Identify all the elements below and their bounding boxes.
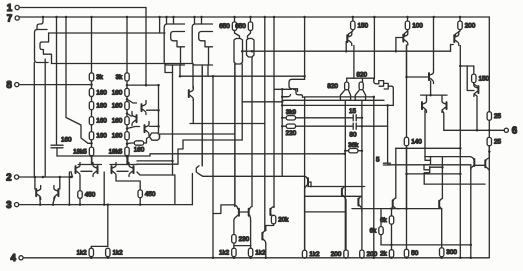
node y66 left (459, 65, 462, 68)
node Q5 tap (251, 50, 254, 53)
wire Q3 drop b (201, 65, 203, 166)
wire x395 drop (395, 148, 397, 198)
wire ladder2 seg3 (126, 110, 128, 117)
wire Q22 top (273, 207, 275, 208)
transistor Q23 (263, 231, 266, 234)
resistor 20k (271, 215, 275, 224)
wire Q28 drop (387, 105, 389, 163)
wire R450B bot (139, 198, 141, 205)
svg-text:3: 3 (6, 200, 12, 211)
wire ladder2 bot (126, 140, 128, 147)
junction V- bus x107.8 (107, 257, 110, 260)
wire y105 bus (282, 104, 393, 106)
wire Q8 coll drop (459, 46, 461, 258)
node y244 x392 (390, 244, 393, 247)
transistor Q24 (289, 79, 305, 89)
resistor 18k5 A (89, 147, 93, 156)
svg-text:3k9: 3k9 (286, 109, 297, 116)
wire V+ to C1 (56, 17, 58, 145)
svg-text:450: 450 (145, 191, 156, 198)
resistor 160 ladder2-4 (125, 132, 129, 140)
transistor Q36 (304, 176, 307, 178)
junction V+ bus x250.5 (249, 16, 252, 19)
wire y196 mid (305, 195, 361, 197)
svg-text:1: 1 (7, 3, 13, 14)
junction V+ bus x201.5 (200, 16, 203, 19)
wire Q21 em (250, 221, 252, 246)
resistor 200 top (458, 21, 462, 30)
node Q7 base (395, 50, 398, 53)
wire Q4a drop (234, 64, 236, 207)
svg-text:820: 820 (327, 83, 338, 90)
svg-text:100: 100 (412, 22, 423, 29)
node ladder1 18k5 (90, 142, 93, 145)
node cap80 tap (361, 125, 364, 128)
wire Q7 base (396, 37, 402, 39)
terminal pin 2 (15, 175, 19, 179)
wire rail2 jog path (137, 140, 242, 164)
node ladder2 tap top (126, 84, 129, 87)
capacitor C5 (383, 163, 390, 165)
wire V+ drop x374 (373, 17, 375, 79)
wire y186 mid (308, 186, 365, 188)
wire Q18 out (39, 197, 41, 205)
wire Q34 base (467, 66, 474, 91)
wire y184 link (424, 183, 485, 185)
wire Q9 base (127, 99, 137, 103)
wire ladder2 top (126, 17, 128, 73)
transistor Q26 (355, 90, 365, 108)
wire y101 link (242, 101, 282, 103)
wire pin3 bus (19, 204, 193, 206)
wire x406 seg (406, 148, 408, 208)
wire pin7 V+ bus (19, 16, 489, 18)
wire inv drop (174, 175, 176, 204)
wire V+ stub (159, 17, 161, 33)
wire 36k right lead (358, 150, 362, 152)
wire Q1 inner drop (44, 59, 46, 177)
junction V+ bus x274 (273, 16, 276, 19)
wire Q7 coll drop (406, 45, 408, 77)
wire 3k9 left (282, 117, 286, 119)
wire x213 column (212, 76, 214, 258)
transistor Q42 (189, 87, 194, 101)
node ladder2 j3 (126, 127, 129, 130)
wire R140 bot (406, 146, 408, 209)
transistor Q1 (35, 30, 49, 63)
node pin1-ladder2 junction (145, 84, 148, 87)
wire tail x107 (107, 205, 109, 247)
resistor 450 B (138, 190, 142, 198)
terminal pin 8 (15, 83, 19, 87)
resistor 1k2 D (248, 248, 252, 256)
junction V+ bus x91.5 (90, 16, 93, 19)
node bus3 104 (103, 203, 106, 206)
svg-text:200: 200 (367, 251, 378, 258)
wire Q29 coll (430, 81, 432, 95)
svg-text:80: 80 (349, 132, 357, 139)
transistor Q18 (36, 186, 41, 200)
node ladder2 18k5 (126, 142, 129, 145)
node Q4 tap (241, 50, 244, 53)
wire cluster1 rail (78, 164, 101, 166)
node Q28 tap (386, 104, 389, 107)
wire Q1 collector to Q2 (49, 32, 165, 34)
node y148 end (459, 147, 462, 150)
wire Q24 em lead (303, 96, 305, 98)
resistor 1k2 C (232, 248, 236, 256)
wire ladder2 seg1 (126, 81, 128, 88)
resistor 160 ladder1-4 (89, 132, 93, 140)
wire R450A bot (79, 198, 81, 204)
svg-text:160: 160 (134, 147, 145, 154)
svg-text:18k5: 18k5 (73, 148, 87, 155)
node cap15 end (361, 117, 364, 120)
junction V+ bus x66 (65, 16, 68, 19)
wire Q1 base bus (52, 63, 194, 65)
node bus3 53 (52, 203, 55, 206)
svg-text:150: 150 (479, 75, 490, 82)
svg-text:1k2: 1k2 (255, 249, 266, 256)
wire Q1 emitter lead (37, 17, 43, 30)
wire R6kB top (380, 209, 382, 227)
svg-text:6k: 6k (370, 228, 378, 235)
wire Q12 out (160, 134, 235, 138)
svg-text:140: 140 (411, 139, 422, 146)
wire Q3 drop a (192, 65, 194, 88)
node R140 y148 (405, 147, 408, 150)
node tap rail end (157, 84, 160, 87)
node out drive (476, 129, 479, 132)
node pin8 ladder1 (90, 83, 93, 86)
svg-text:160: 160 (96, 103, 107, 110)
resistor 3k9 (286, 116, 295, 120)
junction V+ bus x352.8 (352, 16, 355, 19)
transistor Q2 (167, 17, 174, 24)
node cluster base (441, 166, 444, 169)
wire ladder1 seg2 (91, 97, 93, 102)
wire y89 stub (275, 88, 287, 90)
wire x346 bot (345, 199, 347, 250)
wire Q4 lead a (234, 64, 236, 207)
node x282 y126 (281, 125, 284, 128)
transistor Q27 (374, 81, 384, 87)
wire R300 top (441, 210, 443, 247)
node y174 right (459, 173, 462, 176)
wire y123 link (190, 123, 265, 125)
wire R100 top (407, 17, 409, 21)
node bus3 69 (68, 203, 71, 206)
wire ladder1 top (91, 17, 93, 73)
wire 18k5B bot (126, 155, 128, 164)
svg-text:160: 160 (112, 89, 123, 96)
svg-text:160: 160 (96, 118, 107, 125)
svg-text:160: 160 (96, 89, 107, 96)
wire x282 column (281, 89, 283, 176)
wire Q3 drop c (207, 65, 209, 76)
transistor Q31 (442, 99, 447, 113)
wire cluster2 base link (117, 170, 128, 172)
wire ladder1 seg1 (91, 81, 93, 88)
wire R50 top (406, 209, 408, 250)
capacitor C1 (51, 145, 63, 148)
wire Q11 out (150, 125, 159, 127)
wire 18k5A bot (91, 156, 93, 165)
junction V- bus x373.8 (373, 257, 376, 260)
transistor Q41 (470, 157, 473, 160)
wire pin8 bus (19, 84, 92, 86)
wire pin6 output (444, 129, 504, 131)
transistor Q7 (403, 31, 408, 45)
resistor 160 horizontal (134, 141, 143, 145)
transistor Q8 (454, 32, 459, 46)
wire OT bridge (240, 211, 249, 213)
svg-text:5: 5 (376, 157, 380, 164)
wire R6kA top (391, 209, 393, 216)
transistor Q4 (234, 39, 243, 65)
wire Q2 bottom fold (165, 65, 173, 73)
wire Q29 em (433, 17, 435, 70)
svg-text:650: 650 (219, 23, 230, 30)
node y95 tap (429, 94, 432, 97)
resistor 18k5 B (125, 147, 129, 156)
resistor 1k2 E (302, 250, 306, 258)
transistor Q20 (233, 205, 238, 209)
junction V- bus x361.9 (361, 257, 364, 260)
svg-text:200: 200 (331, 251, 342, 258)
junction V+ bus x56.5 (55, 16, 58, 19)
svg-text:50: 50 (411, 250, 419, 257)
wire prot a (34, 177, 36, 189)
svg-text:1k2: 1k2 (219, 249, 230, 256)
transistor Q35 (486, 158, 489, 161)
transistor Q37 (343, 187, 346, 190)
wire Q34 coll (474, 94, 477, 130)
wire x374 lower (373, 97, 375, 258)
node x282 y96 (281, 95, 284, 98)
node Q6 base (345, 50, 348, 53)
node R25B foot (488, 150, 491, 153)
svg-text:3k: 3k (116, 74, 124, 81)
wire Q30 coll (424, 110, 426, 157)
svg-text:25: 25 (494, 113, 502, 120)
junction V- bus x346 (345, 257, 348, 260)
wire prot b (59, 177, 61, 189)
node x282 y89 (281, 88, 284, 91)
wire Q35 coll (488, 146, 490, 258)
wire R200 to Q8 (456, 30, 461, 36)
wire ladder1 seg4 (91, 125, 93, 132)
wire y96 stub (282, 96, 286, 98)
svg-text:160: 160 (112, 133, 123, 140)
junction V+ bus x173.5 (172, 16, 175, 19)
resistor 820 A (345, 82, 349, 90)
wire Q19 out (53, 197, 55, 205)
wire 1k2d top (250, 246, 252, 249)
svg-text:1k2: 1k2 (76, 249, 87, 256)
wire Q22 em (273, 215, 275, 218)
transistor Q38 (359, 196, 362, 199)
transistor Q32 (425, 157, 431, 161)
wire 1k2 pair top (91, 245, 108, 247)
junction V+ bus x460 (459, 16, 462, 19)
resistor 50 (404, 249, 408, 257)
resistor 6k B (379, 227, 383, 235)
svg-text:6: 6 (512, 126, 518, 137)
transistor Q11 (145, 122, 150, 136)
svg-text:2: 2 (6, 172, 12, 183)
wire x213 to OT (213, 205, 233, 214)
wire Q8 base drop (450, 45, 452, 52)
resistor 650 B (248, 22, 252, 31)
transistor Q40 (440, 199, 443, 202)
node 36k left (344, 149, 347, 152)
resistor 160 ladder1-3 (89, 117, 93, 125)
wire x304 column (304, 98, 306, 251)
wire 3k9 right (296, 117, 353, 119)
wire x345 column (344, 108, 346, 250)
wire Q2 out2 drop (179, 65, 181, 76)
wire 36k left lead (345, 150, 348, 152)
junction V+ bus x234.5 (233, 16, 236, 19)
node pin2 b (42, 176, 45, 179)
wire cluster1 base link (81, 170, 92, 172)
resistor 220 (286, 124, 295, 128)
wire Q29 base (407, 76, 428, 78)
svg-text:220: 220 (286, 130, 297, 137)
node ladder2 j2 (126, 112, 129, 115)
svg-text:230: 230 (239, 236, 250, 243)
wire pin1 drop (145, 8, 147, 86)
wire Q42 coll (192, 99, 194, 124)
resistor 300 (440, 248, 444, 257)
wire y148 bus (396, 147, 461, 149)
terminal pin 1 (15, 5, 19, 9)
wire 1k2a top (90, 246, 92, 248)
svg-text:18k5: 18k5 (109, 148, 123, 155)
wire pin2 bus (19, 176, 73, 178)
wire y174 link (407, 173, 461, 175)
wire Q6 coll drop (353, 46, 355, 79)
resistor 160 ladder2-1 (125, 88, 129, 96)
wire cluster2 rail (110, 164, 137, 166)
wire y95 rail (421, 94, 447, 96)
wire R150b to Q34 (474, 83, 477, 86)
wire inv route (137, 172, 175, 175)
resistor 650 A (232, 22, 236, 31)
resistor 1k2 A (89, 248, 93, 256)
node x282 y117 (281, 117, 284, 120)
wire y66 link (460, 65, 474, 67)
wire Q8 base stub (451, 44, 454, 46)
wire Q13 em (79, 177, 81, 191)
wire V+ drop x274 (273, 17, 275, 207)
wire y97 link (305, 96, 374, 98)
node pin2 q13 (70, 176, 73, 179)
node pin6 junction (488, 129, 491, 132)
wire ladder2 seg2 (126, 97, 128, 102)
resistor 200 B (360, 250, 364, 258)
svg-text:820: 820 (357, 71, 368, 78)
resistor 3k ladder1-0 (89, 73, 93, 81)
resistor 25 B (487, 137, 491, 145)
svg-text:160: 160 (96, 133, 107, 140)
wire R150b top (473, 66, 475, 74)
wire Q7 base drop (395, 38, 397, 52)
transistor Q12 (150, 133, 160, 140)
wire Q6 base drop (345, 42, 347, 52)
junction V+ bus x304.6 (303, 16, 306, 19)
junction V- bus x460.3 (459, 257, 462, 260)
wire ladder2 tap rail (127, 84, 159, 86)
transistor Q25 (340, 90, 350, 108)
wire y244 link (381, 244, 471, 246)
resistor 25 A (487, 112, 491, 121)
wire R230 bot (233, 243, 235, 248)
wire cluster2 center (127, 157, 129, 165)
wire Q30 em (426, 95, 428, 98)
node y208 x392 (390, 207, 393, 210)
resistor 1k2 B (106, 248, 110, 256)
resistor 820 B (359, 82, 363, 90)
junction V- bus x470.8 (470, 257, 473, 260)
resistor 3k ladder2-0 (125, 73, 129, 81)
svg-text:1k2: 1k2 (309, 251, 320, 258)
wire Q5 lead (251, 57, 253, 207)
node bus3 40 (39, 203, 42, 206)
resistor 160 ladder2-2 (125, 102, 129, 110)
svg-text:36k: 36k (348, 142, 359, 149)
wire R6kA bot (391, 224, 393, 249)
resistor 200 A (344, 250, 348, 258)
wire cluster1 center (91, 156, 93, 164)
transistor Q17 (196, 166, 203, 177)
wire ladder1 seg3 (91, 110, 93, 117)
capacitor 15 (353, 115, 356, 121)
node 18k5B tail (126, 155, 129, 158)
wire rail jog (150, 154, 345, 156)
junction V- bus x213 (212, 257, 215, 260)
junction V+ bus x159.6 (158, 16, 161, 19)
wire Q31 em (441, 95, 443, 98)
wire R100 to Q7 (405, 30, 408, 35)
wire Q11 base (127, 127, 140, 129)
node y174 left (405, 173, 408, 176)
transistor Q15 (112, 163, 117, 177)
node base bus x213 (212, 75, 215, 78)
wire Q9 out (147, 109, 159, 111)
wire R650A to Q4 (235, 31, 240, 39)
junction V+ bus x43 (42, 16, 45, 19)
wire Q1 left drop (33, 63, 35, 178)
resistor 450 A (78, 191, 82, 199)
wire Q28 right (392, 93, 394, 105)
svg-text:2k: 2k (380, 251, 388, 258)
junction V- bus x91.3 (90, 257, 93, 260)
svg-text:150: 150 (358, 22, 369, 29)
wire cluster1 box (68, 172, 70, 205)
node bus3 80 (79, 203, 82, 206)
wire R25A bot (488, 120, 490, 137)
resistor 160 ladder1-1 (89, 88, 93, 96)
wire Q4 lead b (241, 64, 243, 140)
junction V+ bus x433.8 (433, 16, 436, 19)
svg-text:160: 160 (112, 103, 123, 110)
wire R160h left (127, 142, 134, 145)
junction V+ bus x127 (126, 16, 129, 19)
node ladder2 j1 (126, 98, 129, 101)
node R140 tap (405, 76, 408, 79)
